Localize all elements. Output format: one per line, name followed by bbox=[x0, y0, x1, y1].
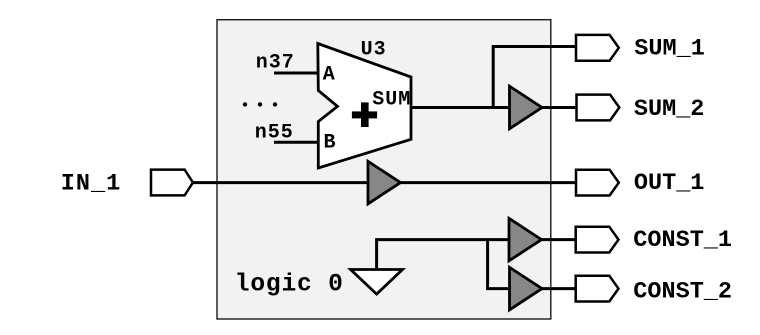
svg-text:CONST_1: CONST_1 bbox=[633, 227, 732, 254]
svg-text:U3: U3 bbox=[361, 38, 387, 61]
svg-text:SUM: SUM bbox=[372, 89, 411, 112]
svg-text:SUM_1: SUM_1 bbox=[634, 35, 705, 62]
svg-text:n55: n55 bbox=[255, 121, 294, 144]
svg-text:A: A bbox=[323, 63, 336, 86]
svg-text:n37: n37 bbox=[256, 51, 295, 74]
svg-text:OUT_1: OUT_1 bbox=[634, 170, 705, 197]
svg-text:CONST_2: CONST_2 bbox=[633, 278, 732, 305]
svg-text:logic 0: logic 0 bbox=[235, 272, 344, 299]
svg-text:SUM_2: SUM_2 bbox=[634, 96, 705, 123]
svg-text:B: B bbox=[324, 132, 337, 155]
svg-text:IN_1: IN_1 bbox=[61, 170, 121, 197]
